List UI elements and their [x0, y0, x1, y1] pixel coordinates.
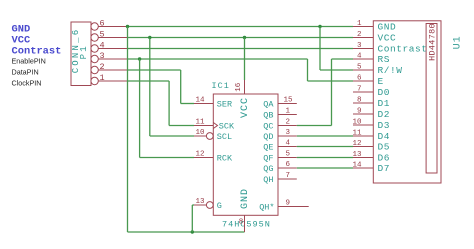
svg-text:5: 5: [100, 29, 105, 39]
svg-text:9: 9: [286, 200, 291, 208]
svg-text:DataPIN: DataPIN: [12, 68, 39, 77]
HD pin 14 line: [353, 167, 373, 169]
wire GND row to HD pin1: [128, 26, 354, 28]
svg-text:D0: D0: [378, 87, 391, 98]
connector pin 5 line: [98, 37, 128, 39]
wire VCC row to HD pin2: [128, 37, 354, 39]
svg-text:1: 1: [286, 108, 291, 116]
svg-text:6: 6: [286, 161, 291, 169]
svg-text:D7: D7: [378, 163, 391, 174]
svg-text:7: 7: [357, 86, 362, 94]
svg-text:2: 2: [100, 62, 105, 72]
svg-text:6: 6: [357, 75, 362, 83]
HD pin 8 line: [353, 102, 373, 104]
junction GND row: [126, 25, 129, 28]
svg-text:SCL: SCL: [217, 132, 232, 142]
svg-text:5: 5: [286, 151, 291, 159]
op IC1 74HC595N body: [213, 94, 278, 215]
svg-text:QF: QF: [263, 153, 273, 163]
LCD U1 HD44780 body: [373, 21, 441, 183]
wire GND vertical rail: [127, 27, 129, 233]
IC1 pin 4 QE line: [278, 146, 297, 148]
wire DataPIN to SER vertical: [180, 70, 182, 104]
connector pin 2 circle: [91, 66, 98, 73]
wire Contrast row to HD pin3: [128, 48, 354, 50]
IC1 pin 13 invert circle: [206, 202, 213, 209]
svg-text:SER: SER: [217, 99, 232, 109]
svg-text:11: 11: [195, 119, 205, 127]
svg-text:5: 5: [357, 64, 362, 72]
svg-text:4: 4: [286, 140, 291, 148]
svg-text:VCC: VCC: [240, 97, 251, 118]
IC1 pin 5 QF line: [278, 157, 297, 159]
svg-text:Contrast: Contrast: [378, 44, 428, 55]
HD pin 13 line: [353, 157, 373, 159]
wire G branch vertical: [191, 205, 193, 232]
svg-text:RS: RS: [378, 54, 391, 65]
connector pin 6 line: [98, 26, 128, 28]
connector pin 1 circle: [91, 77, 98, 84]
HD pin 12 line: [353, 146, 373, 148]
svg-text:QG: QG: [263, 164, 273, 174]
IC1 pin 10 invert circle: [206, 133, 213, 140]
HD pin 11 line: [353, 135, 373, 137]
svg-text:12: 12: [352, 140, 361, 148]
HD pin 5 line: [353, 69, 373, 71]
svg-text:14: 14: [352, 162, 362, 170]
wire EnablePIN to E vertical: [307, 59, 309, 81]
wire QC riser: [331, 59, 333, 126]
IC1 pin 6 QG line: [278, 167, 297, 169]
wire GND bottom rail: [128, 231, 245, 233]
wire QD to HD pin11: [297, 135, 353, 137]
svg-text:14: 14: [195, 97, 205, 105]
IC1 pin 11 clock mark: [213, 123, 217, 129]
svg-text:GND: GND: [378, 22, 397, 33]
svg-text:11: 11: [352, 130, 362, 138]
svg-text:13: 13: [195, 198, 205, 206]
wire EnablePIN to RCK vertical: [139, 59, 141, 158]
connector P1 body: [71, 22, 91, 86]
svg-text:IC1: IC1: [212, 81, 230, 91]
svg-text:15: 15: [284, 97, 294, 105]
wire VCC to IC pin16 vertical: [244, 38, 246, 81]
svg-text:QA: QA: [263, 99, 274, 109]
svg-text:SCK: SCK: [219, 121, 235, 131]
HD pin 2 line: [353, 37, 373, 39]
svg-text:D1: D1: [378, 98, 391, 109]
svg-text:3: 3: [357, 42, 362, 50]
wire SER horizontal: [181, 103, 194, 105]
svg-text:4: 4: [100, 40, 105, 50]
svg-text:10: 10: [352, 119, 362, 127]
wire QG to HD pin14: [297, 167, 353, 169]
IC1 pin 7 QH line: [278, 178, 297, 180]
wire VCC to SCL vertical: [149, 38, 151, 137]
HD pin 4 line: [353, 58, 373, 60]
connector pin 6 circle: [91, 23, 98, 30]
IC1 pin 9 QH* line: [278, 206, 309, 208]
IC1 pin 15 QA line: [278, 103, 297, 105]
svg-text:QD: QD: [263, 132, 273, 142]
HD pin 9 line: [353, 113, 373, 115]
wire E horizontal to HD pin6: [308, 80, 354, 82]
IC1 pin 3 QD line: [278, 135, 297, 137]
svg-text:3: 3: [286, 129, 291, 137]
IC1 pin 10 SCL line: [194, 135, 206, 137]
wire RS horizontal to HD pin4: [332, 58, 354, 60]
connector pin 3 line: [98, 58, 128, 60]
wire EnablePIN row: [128, 58, 308, 60]
wire GND to R/W riser: [319, 27, 321, 71]
svg-text:D6: D6: [378, 153, 391, 164]
svg-text:D2: D2: [378, 109, 391, 120]
wire RCK horizontal: [140, 157, 194, 159]
HD pin 1 line: [353, 26, 373, 28]
HD pin 3 line: [353, 48, 373, 50]
svg-text:ClockPIN: ClockPIN: [12, 79, 42, 88]
wire QE to HD pin12: [297, 146, 353, 148]
svg-text:QH*: QH*: [259, 202, 274, 212]
junction VCC to IC pin16: [243, 36, 246, 39]
svg-text:2: 2: [357, 31, 362, 39]
HD pin 10 line: [353, 124, 373, 126]
IC1 pin 14 SER line: [194, 103, 213, 105]
svg-text:GND: GND: [240, 188, 251, 209]
svg-text:QC: QC: [263, 121, 273, 131]
svg-text:RCK: RCK: [217, 153, 233, 163]
svg-text:4: 4: [357, 53, 362, 61]
connector pin 2 line: [98, 69, 128, 71]
wire G branch horizontal: [192, 204, 194, 206]
svg-text:D3: D3: [378, 120, 391, 131]
svg-text:2: 2: [286, 119, 291, 127]
connector pin 5 circle: [91, 34, 98, 41]
IC1 pin 12 RCK line: [194, 157, 213, 159]
svg-text:G: G: [217, 201, 222, 211]
svg-text:HD44780: HD44780: [427, 23, 437, 61]
svg-text:8: 8: [357, 97, 362, 105]
wire QF to HD pin13: [297, 157, 353, 159]
wire SCK horizontal: [169, 125, 194, 127]
wire ClockPIN to SCK vertical: [168, 81, 170, 126]
HD pin 6 line: [353, 80, 373, 82]
svg-text:1: 1: [100, 73, 105, 83]
svg-text:QH: QH: [263, 175, 273, 185]
wire DataPIN row: [128, 69, 181, 71]
LCD U1 inner frame: [426, 24, 437, 174]
svg-text:GND: GND: [12, 24, 31, 36]
svg-text:VCC: VCC: [378, 33, 397, 44]
junction EnablePIN to RCK: [138, 57, 141, 60]
connector pin 4 line: [98, 48, 128, 50]
connector pin 4 circle: [91, 45, 98, 52]
svg-text:16: 16: [235, 82, 243, 92]
wire ClockPIN row: [128, 80, 170, 82]
IC1 pin 1 QB line: [278, 114, 297, 116]
junction VCC to SCL: [148, 36, 151, 39]
svg-text:U1: U1: [453, 35, 464, 49]
svg-text:D5: D5: [378, 142, 391, 153]
wire R/W horizontal to HD pin5: [320, 69, 353, 71]
svg-text:QB: QB: [263, 110, 273, 120]
svg-text:7: 7: [286, 172, 291, 180]
IC1 pin 8 GND line: [244, 215, 246, 232]
connector pin 3 circle: [91, 55, 98, 62]
svg-text:12: 12: [195, 151, 204, 159]
svg-text:EnablePIN: EnablePIN: [12, 57, 46, 66]
svg-text:E: E: [378, 76, 384, 87]
IC1 pin 2 QC line: [278, 125, 297, 127]
svg-text:74HC595N: 74HC595N: [222, 219, 271, 229]
svg-text:10: 10: [195, 129, 205, 137]
HD pin 7 line: [353, 91, 373, 93]
wire QC horizontal: [297, 125, 332, 127]
junction GND to R/W riser: [318, 25, 321, 28]
svg-text:P1: P1: [79, 44, 89, 59]
svg-text:R/!W: R/!W: [378, 65, 403, 76]
IC1 pin 11 SCK line: [194, 125, 213, 127]
IC1 pin 13 G line: [194, 204, 206, 206]
svg-text:13: 13: [352, 151, 362, 159]
svg-text:9: 9: [357, 108, 362, 116]
svg-text:1: 1: [357, 20, 362, 28]
svg-text:3: 3: [100, 51, 105, 61]
svg-text:6: 6: [100, 18, 105, 28]
junction GND bottom rail: [191, 230, 194, 233]
connector pin 1 line: [98, 80, 128, 82]
wire SCL horizontal: [150, 135, 194, 137]
svg-text:D4: D4: [378, 131, 391, 142]
IC1 pin 16 VCC line: [244, 80, 246, 94]
svg-text:8: 8: [239, 218, 244, 226]
svg-text:QE: QE: [263, 142, 273, 152]
